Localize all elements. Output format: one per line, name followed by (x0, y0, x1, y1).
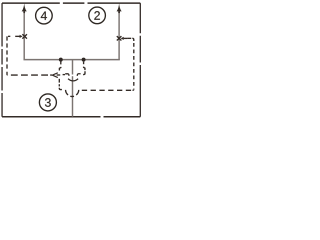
check valve cup on node 3 stem (68, 79, 78, 81)
port 2 arrow (117, 3, 122, 11)
open arrowhead on pilot line (52, 73, 57, 78)
plug X on port 4 line (22, 34, 27, 38)
hop of pilot line over node 3 wire (66, 90, 79, 97)
port 2 line (118, 10, 120, 60)
pilot segment right of cup (83, 62, 85, 75)
pilot arrow into port 2 plug (124, 37, 128, 39)
port 4 line (23, 10, 25, 60)
enclosure dashed border (2, 3, 140, 117)
node 3 stem lower / wire to port 3 (72, 76, 74, 116)
plug X on port 2 line (117, 36, 122, 40)
port label 2 (89, 7, 106, 24)
port label 4 (36, 7, 53, 24)
pilot dashes right of open arrowhead (57, 74, 65, 76)
pilot arrow into port 4 plug (15, 35, 20, 37)
pilot line down left side (6, 36, 8, 71)
pilot line across bottom-left toward arrow (8, 74, 48, 76)
node 3 stem upper (72, 60, 74, 75)
pilot dashes left of arrow (8, 35, 10, 37)
port label 3 (39, 94, 56, 111)
junction dot right (82, 58, 86, 62)
port 4 arrow (22, 3, 27, 11)
junction dot left (59, 58, 63, 62)
pilot elbow into cup, left (65, 74, 69, 76)
pilot elbow into cup, right (77, 74, 80, 76)
pilot from left dot downward (59, 62, 62, 90)
pilot line across to right side (82, 89, 132, 91)
bus wire (24, 58, 119, 61)
pilot line up right side (133, 41, 135, 89)
